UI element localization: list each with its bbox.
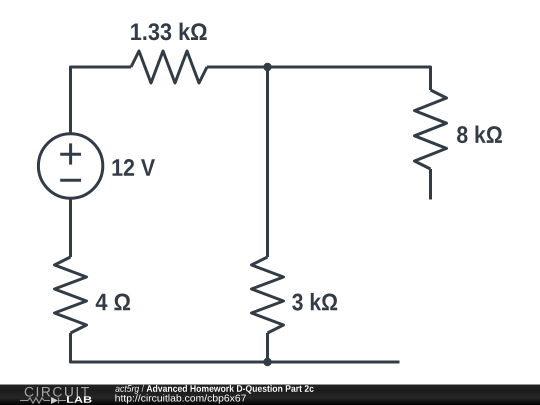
resistor R4 zigzag (8 kOhm) [415,90,447,169]
logo diode triangle [51,397,58,404]
resistor R2 zigzag (4 Ohm) [55,257,87,333]
footer line 2: url [115,394,246,403]
node B junction dot [263,358,271,366]
wire middle vertical (node A down to R3 top) [266,67,269,257]
CircuitLab logo mini-schematic wire [20,398,66,404]
node A junction dot [263,63,271,71]
label R3 value 3 kOhm [292,293,337,311]
V1 plus sign [60,143,81,164]
label R4 value 8 kOhm [457,126,502,144]
label V1 value 12 V [113,159,156,176]
footer line 1: user / title [115,385,313,394]
V1 minus sign [60,179,81,182]
wire bottom rail: R2 bottom lead, corner, through node B to open right end [71,333,400,362]
label R1 value 1.33 kOhm [131,23,207,41]
footer bar [0,385,540,405]
wire R4 bottom open lead [429,169,432,200]
wire V1 bottom to R2 top [69,199,72,257]
wire top-left: R1 left lead, corner, down to V1 top [71,67,132,133]
resistor R1 zigzag (1.33 kOhm) [131,51,207,83]
logo diode cathode bar and wire [59,398,67,404]
logo wire to diode [44,400,50,402]
label R2 value 4 Ohm [96,294,130,311]
resistor R3 zigzag (3 kOhm) [252,257,284,333]
CircuitLab logo word LAB [67,396,92,402]
wire R3 bottom to node B [266,333,269,362]
voltage source V1 circle [38,134,102,198]
wire top horizontal: R1 right lead through node A to top-right corner, down to R4 [207,67,431,90]
CircuitLab logo word CIRCUIT [25,387,89,397]
logo resistor zigzag [28,398,44,403]
